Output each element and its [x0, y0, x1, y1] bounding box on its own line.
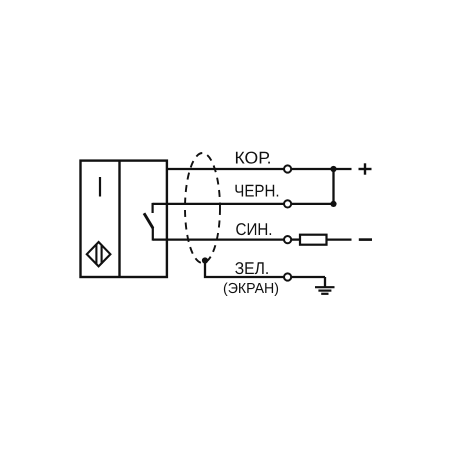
wire КОР (brown) [167, 168, 352, 170]
inductive sensing element symbol (rhombus) [87, 242, 111, 266]
switch contact (NO output) [144, 203, 153, 241]
label ЧЕРН. [234, 181, 279, 200]
terminal ЗЕЛ [284, 273, 291, 280]
minus supply symbol [359, 238, 372, 241]
terminal ЧЕРН [284, 200, 291, 207]
sensor body outline [81, 161, 167, 277]
label КОР. [235, 149, 272, 168]
label (ЭКРАН) [223, 281, 279, 297]
label СИН. [236, 220, 273, 239]
svg-text:КОР.: КОР. [235, 149, 272, 168]
cable sheath (dashed ellipse) [185, 153, 220, 263]
svg-text:ЗЕЛ.: ЗЕЛ. [235, 259, 270, 278]
wire ЧЕРН (black) [153, 203, 334, 205]
link wire КОР-ЧЕРН [332, 169, 334, 204]
junction dot on ЧЕРН wire [330, 201, 336, 207]
junction dot on cable shield [202, 257, 208, 263]
svg-text:СИН.: СИН. [236, 220, 273, 239]
ground symbol [315, 277, 335, 294]
label ЗЕЛ. [235, 259, 270, 278]
svg-text:ЧЕРН.: ЧЕРН. [234, 181, 279, 200]
output indicator mark I [99, 177, 101, 197]
load resistor [300, 235, 327, 245]
terminal СИН [284, 236, 291, 243]
svg-text:(ЭКРАН): (ЭКРАН) [223, 281, 279, 297]
wire ЗЕЛ (green / shield) [205, 260, 325, 278]
terminal КОР [284, 165, 291, 172]
sensor body divider [118, 161, 120, 277]
junction dot on КОР wire [330, 166, 336, 172]
wire СИН (blue) [153, 238, 352, 240]
plus supply symbol [359, 163, 372, 174]
